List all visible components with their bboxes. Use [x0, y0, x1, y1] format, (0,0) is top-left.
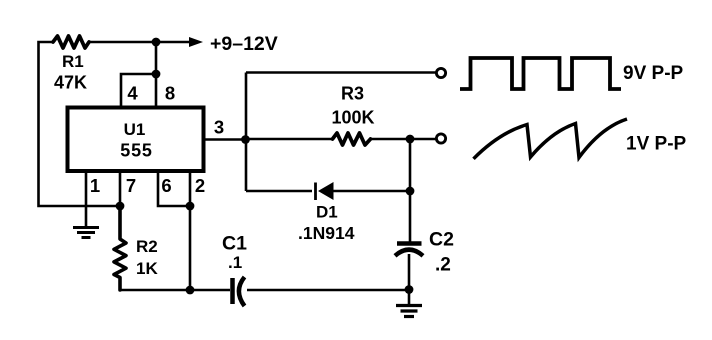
wire: left loop from R1 left end down and across to pin 7 [39, 42, 121, 206]
wire: to sawtooth terminal [410, 138, 436, 141]
svg-text:C1: C1 [222, 233, 247, 255]
svg-text:100K: 100K [331, 108, 374, 128]
diode D1 wires [246, 190, 312, 193]
svg-text:2: 2 [195, 175, 205, 196]
terminal: square output [436, 68, 445, 77]
wire: R3 left lead [246, 138, 334, 141]
node: ground junction [405, 285, 414, 294]
pin 4 jumper wire [121, 74, 156, 106]
waveform: square wave [460, 58, 621, 89]
waveform: sawtooth [474, 119, 628, 159]
svg-text:R1: R1 [62, 52, 84, 71]
resistor R1 [53, 36, 89, 48]
diode D1 [316, 182, 334, 200]
wire: riser from square output down to diode row [245, 73, 248, 192]
pin 6 jumper wire to pin 2 [158, 172, 190, 206]
svg-text:555: 555 [120, 141, 152, 161]
wire: R3 right lead [369, 138, 410, 141]
svg-text:47K: 47K [54, 73, 87, 93]
node: pin4/pin8 tie junction [152, 70, 161, 79]
svg-text:.1N914: .1N914 [298, 223, 355, 243]
pin 7 wire [119, 172, 122, 206]
svg-text:+9–12V: +9–12V [210, 33, 278, 55]
wire: square wave output line [246, 71, 436, 74]
pin 1 wire [85, 172, 88, 226]
svg-text:C2: C2 [429, 229, 454, 251]
svg-text:7: 7 [126, 175, 136, 196]
wire: bottom rail left of C1 [120, 289, 230, 292]
terminal: sawtooth output [436, 134, 445, 143]
ground (pin 1) [73, 228, 99, 238]
wire: column between R3 junction and diode junction [409, 139, 412, 191]
capacitor C1 [233, 277, 245, 306]
resistor R2 (vertical) [114, 206, 126, 290]
svg-text:R3: R3 [341, 84, 364, 104]
node: pin 7 junction [116, 202, 125, 211]
svg-text:9V P-P: 9V P-P [623, 63, 684, 84]
node: R3 output junction [406, 135, 415, 144]
svg-text:3: 3 [214, 117, 224, 138]
node: bottom rail / pin 2 junction [186, 286, 195, 295]
svg-text:U1: U1 [124, 120, 146, 139]
node: pin 3 junction [241, 135, 250, 144]
wire: pin 2 column down to bottom rail [189, 206, 192, 290]
pin 2 wire [189, 172, 192, 206]
wire: C2 to ground junction [408, 254, 411, 290]
node: pin 2 junction [186, 202, 195, 211]
svg-text:.1: .1 [228, 253, 242, 272]
wire: junction down to C2 [409, 191, 412, 242]
node: +V junction [152, 38, 161, 47]
svg-text:1: 1 [90, 175, 100, 196]
svg-text:4: 4 [127, 83, 138, 104]
svg-text:.2: .2 [435, 255, 451, 276]
wire: top rail from R1 to +V junction [89, 41, 156, 44]
power arrow to +9-12V [156, 41, 191, 44]
svg-text:1V P-P: 1V P-P [626, 134, 687, 155]
svg-text:1K: 1K [136, 259, 158, 278]
pin 3 wire [203, 138, 246, 141]
ground (main) [396, 290, 422, 317]
svg-text:R2: R2 [136, 237, 158, 256]
wire: bottom rail right of C1 [247, 289, 409, 292]
resistor R3 [333, 133, 371, 145]
op-amp/IC U1 555 box [68, 108, 204, 172]
node: diode output junction [406, 187, 415, 196]
wire: pin 8 column from +V junction down to IC [155, 42, 158, 106]
svg-text:D1: D1 [316, 203, 338, 222]
svg-text:6: 6 [161, 175, 171, 196]
capacitor C2 [395, 244, 423, 256]
svg-text:8: 8 [165, 83, 175, 104]
